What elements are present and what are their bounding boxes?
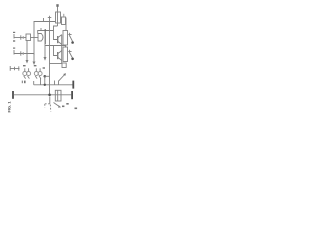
svg-text:FIG. 1: FIG. 1 bbox=[7, 101, 12, 113]
